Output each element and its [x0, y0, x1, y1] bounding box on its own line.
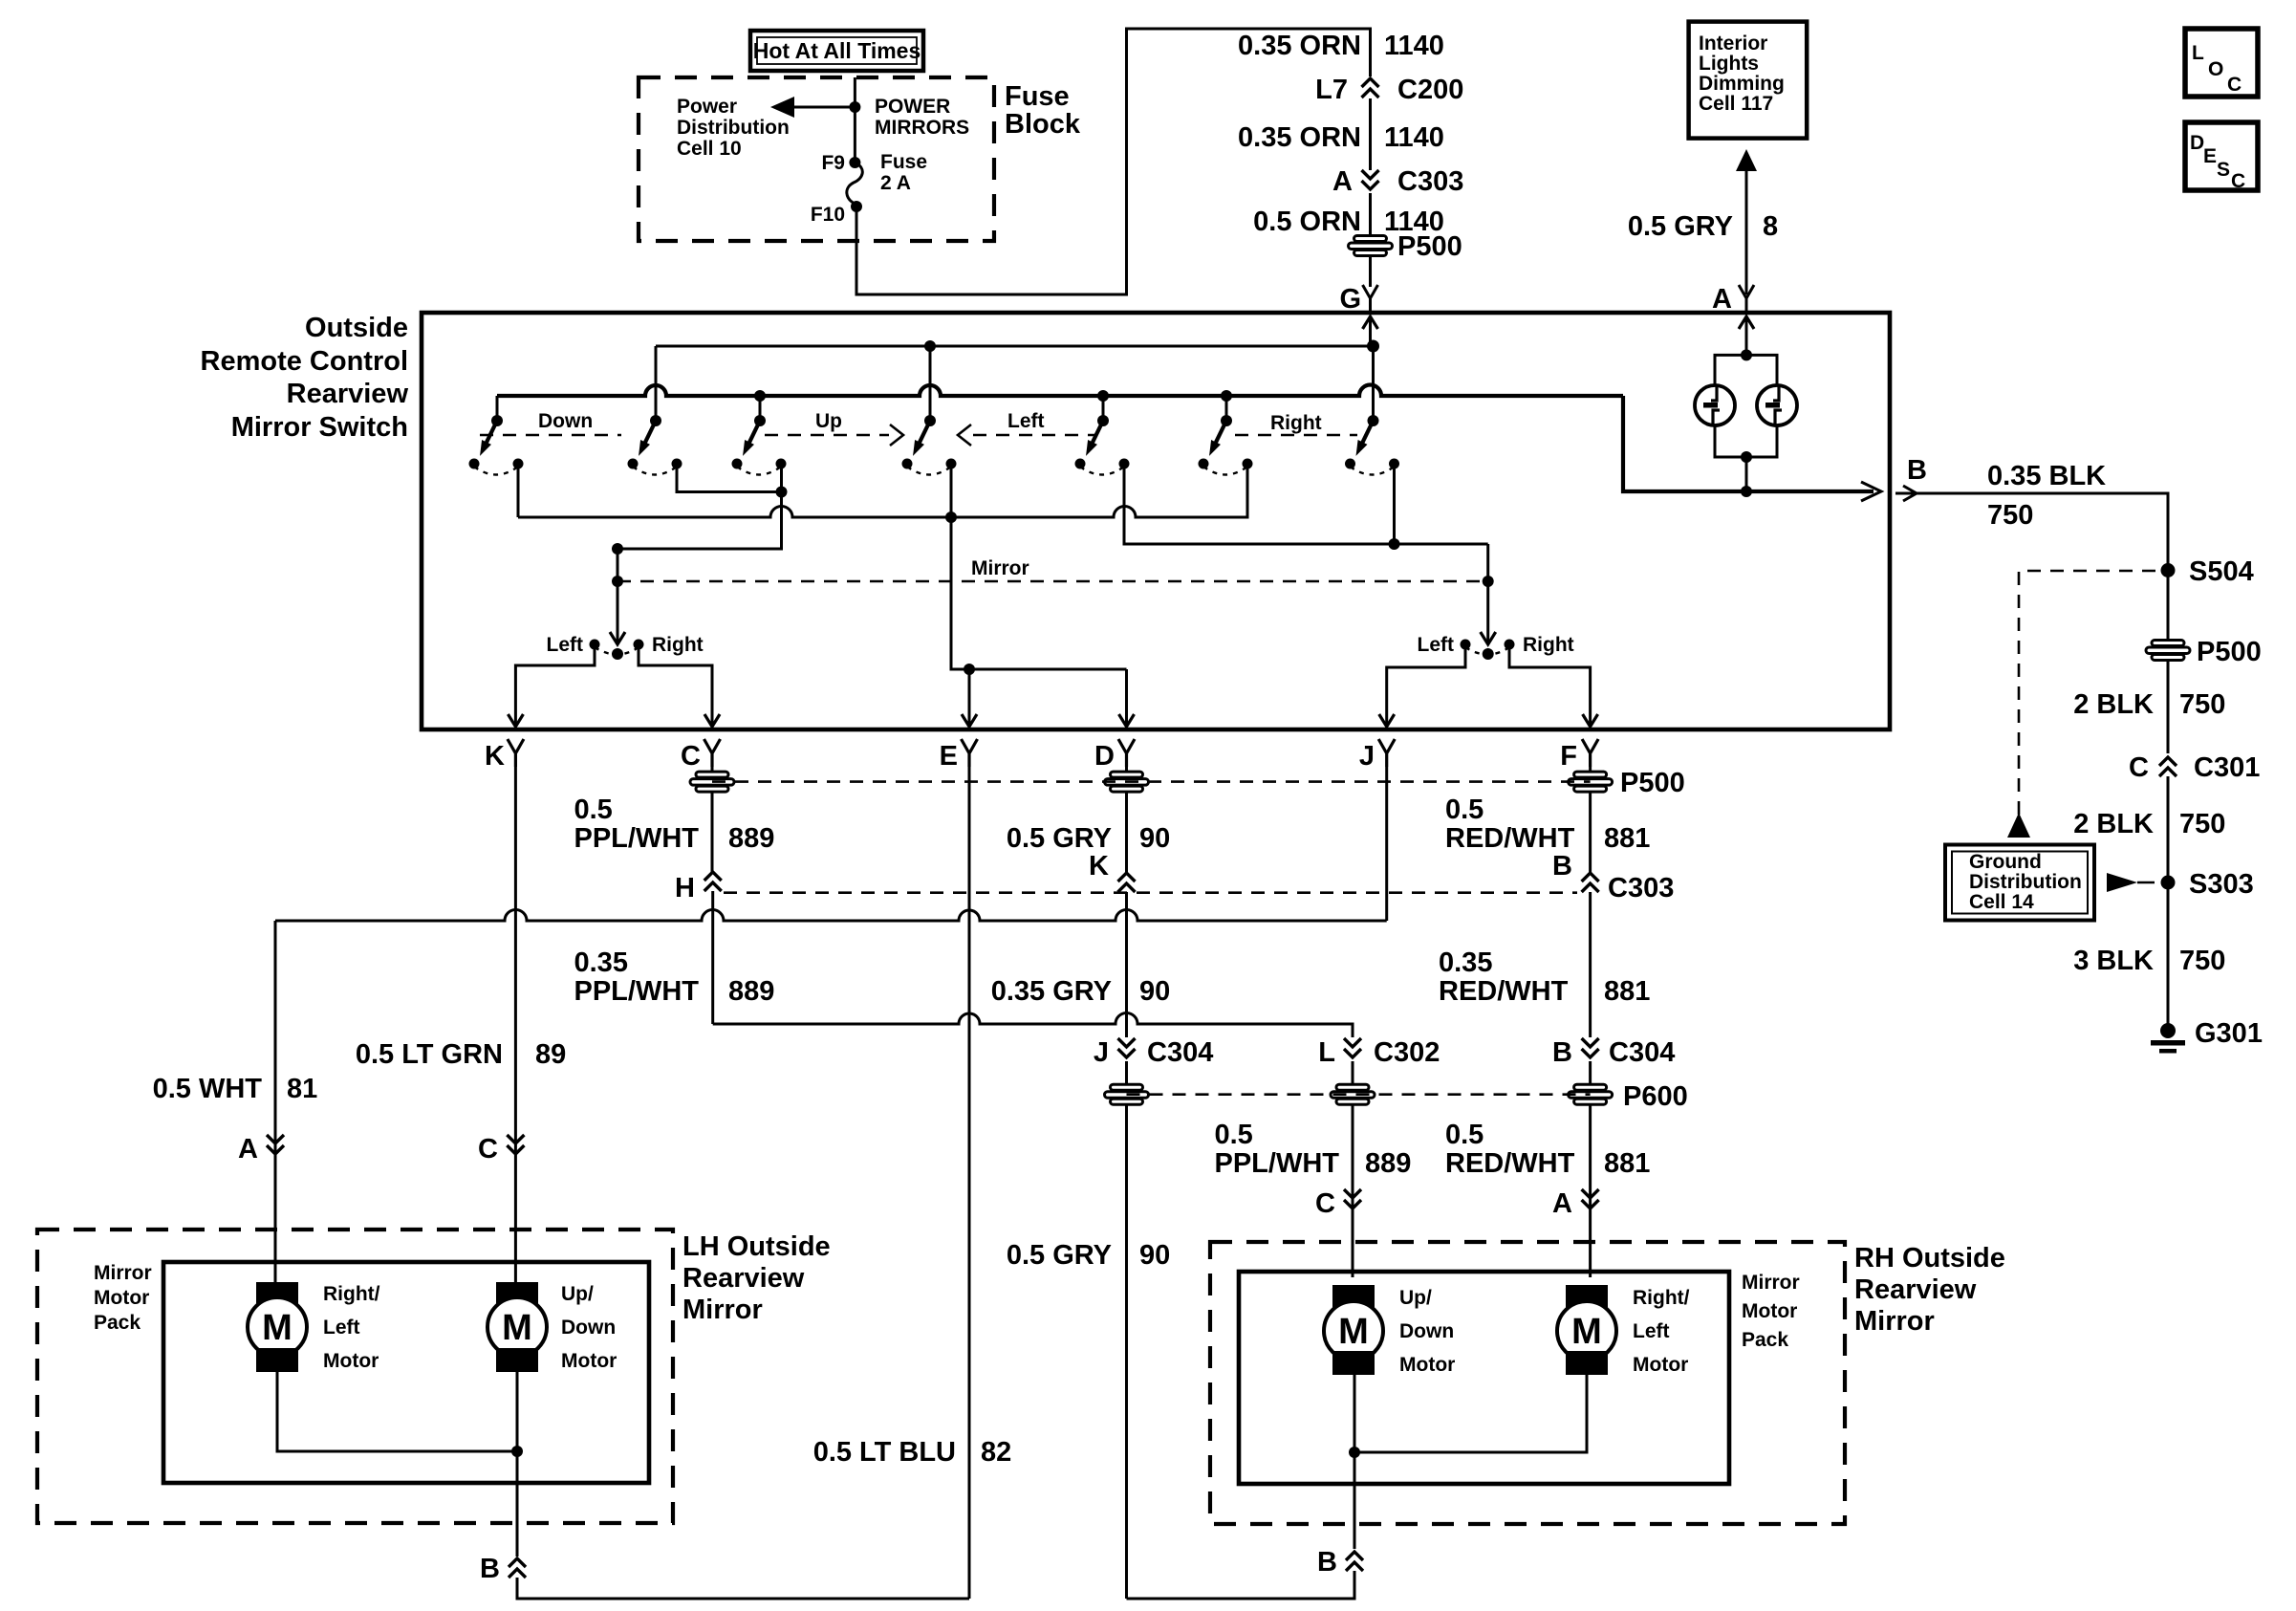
- label 0.5 WHT 81: [153, 1074, 318, 1104]
- svg-text:Motor: Motor: [561, 1350, 617, 1372]
- label 0.5 LT GRN 89: [356, 1039, 566, 1070]
- label Mirror Motor Pack (LH): [94, 1262, 152, 1334]
- connector G half chevron: [1363, 285, 1378, 313]
- svg-text:3 BLK: 3 BLK: [2073, 946, 2154, 976]
- wire SW5 right contact down to y569: [1124, 468, 1488, 544]
- node lamp bottom: [1741, 451, 1752, 463]
- wire LH U/D motor bottom through common to B: [516, 1372, 519, 1557]
- svg-text:PPL/WHT: PPL/WHT: [574, 976, 700, 1007]
- svg-text:Distribution: Distribution: [677, 117, 790, 139]
- line A (upper thin bus): [656, 345, 1374, 348]
- Hot At All Times box: [750, 31, 923, 71]
- svg-text:0.35: 0.35: [1439, 947, 1492, 978]
- svg-text:Motor: Motor: [1633, 1354, 1688, 1376]
- svg-text:B: B: [1907, 455, 1927, 486]
- svg-text:Left: Left: [1007, 410, 1045, 432]
- wire E drop with arrow: [962, 669, 977, 727]
- svg-text:Mirror: Mirror: [1742, 1272, 1800, 1294]
- label Mirror Motor Pack (RH): [1742, 1272, 1800, 1351]
- svg-text:0.35 ORN: 0.35 ORN: [1238, 31, 1361, 61]
- svg-text:0.5: 0.5: [574, 795, 613, 825]
- svg-text:0.35 ORN: 0.35 ORN: [1238, 122, 1361, 153]
- LOC box: [2185, 29, 2258, 97]
- label 0.35 ORN 1140: [1238, 122, 1444, 153]
- wire: 0.5 GRY 8 up to dimming: [1736, 149, 1757, 294]
- arrow C into box bottom: [704, 714, 720, 727]
- svg-text:PPL/WHT: PPL/WHT: [1215, 1148, 1340, 1179]
- svg-text:Rearview: Rearview: [1854, 1274, 1977, 1305]
- svg-text:B: B: [1552, 1037, 1572, 1068]
- splice S303: [2161, 876, 2176, 890]
- label RH Outside Rearview Mirror: [1854, 1243, 2005, 1337]
- DESC box: [2185, 122, 2258, 192]
- switch SW3 Up-left: [732, 415, 787, 475]
- svg-text:O: O: [2208, 58, 2223, 80]
- connector F pin: [1582, 739, 1598, 767]
- svg-text:889: 889: [1365, 1148, 1411, 1179]
- wire SW3 right contact down through junction to mirror select LH: [617, 468, 782, 549]
- svg-text:C304: C304: [1609, 1037, 1675, 1068]
- connector B chevron (LH): [509, 1558, 526, 1578]
- svg-text:0.35 BLK: 0.35 BLK: [1987, 461, 2106, 491]
- svg-text:A: A: [1552, 1188, 1572, 1219]
- label B / C304: [1552, 1037, 1675, 1068]
- svg-text:Up/: Up/: [561, 1283, 594, 1305]
- label C / C301: [2129, 752, 2260, 783]
- svg-text:Distribution: Distribution: [1969, 871, 2082, 893]
- wire RH mirror-select feed with arrow: [1481, 544, 1496, 644]
- node SW4 feed on line A: [924, 340, 936, 352]
- svg-text:Rearview: Rearview: [287, 379, 409, 409]
- connector K pin: [508, 739, 524, 767]
- wire LH B to E wire along bottom: [517, 1578, 969, 1599]
- svg-text:G301: G301: [2195, 1018, 2263, 1049]
- svg-text:C301: C301: [2194, 752, 2260, 783]
- wire SW5 stub: [1102, 396, 1105, 421]
- svg-text:C302: C302: [1374, 1037, 1440, 1068]
- svg-text:C303: C303: [1608, 873, 1674, 903]
- label 0.5 RED/WHT 881: [1445, 795, 1650, 854]
- label 0.35 PPL/WHT 889: [574, 947, 775, 1007]
- svg-text:RED/WHT: RED/WHT: [1445, 823, 1575, 854]
- lamp left: [1695, 385, 1735, 425]
- node E branch: [964, 664, 975, 675]
- label 2 BLK 750: [2073, 689, 2225, 720]
- connector A chevron into RH mirror: [1582, 1189, 1599, 1208]
- RH mirror motor pack box: [1239, 1272, 1729, 1484]
- switch SW1 Down-left: [469, 415, 524, 475]
- svg-text:P500: P500: [1397, 231, 1462, 262]
- svg-text:G: G: [1339, 284, 1361, 315]
- svg-text:C303: C303: [1397, 166, 1463, 197]
- wire 0.35 BLK 750 to S504: [1895, 493, 2168, 564]
- label Right/ Left Motor (LH): [323, 1283, 380, 1372]
- svg-text:90: 90: [1139, 823, 1170, 854]
- wire D drop with arrow: [1119, 669, 1135, 727]
- svg-text:Interior: Interior: [1699, 33, 1767, 54]
- LH motor Up/Down M2: [487, 1282, 547, 1372]
- label LH Outside Rearview Mirror: [682, 1231, 831, 1325]
- label B / C303: [1552, 851, 1674, 903]
- label 0.5 PPL/WHT 889 (lower): [1215, 1120, 1412, 1179]
- svg-text:881: 881: [1604, 1148, 1650, 1179]
- connector B chevron C304: [1582, 1038, 1599, 1057]
- dashed link Right: [1235, 434, 1357, 437]
- wire C/H continues down to PPL row 2: [711, 891, 714, 1024]
- node SW2/SW3 junction: [776, 487, 788, 498]
- svg-text:D: D: [1094, 741, 1115, 772]
- ground G301 symbol: [2151, 1023, 2185, 1054]
- label Power Distribution Cell 10: [677, 96, 790, 160]
- wire LH select right contact to C: [639, 648, 712, 717]
- svg-text:C: C: [681, 741, 701, 772]
- svg-text:Cell 117: Cell 117: [1699, 93, 1773, 115]
- svg-text:Mirror Switch: Mirror Switch: [231, 412, 408, 443]
- label Up/ Down Motor (RH): [1399, 1287, 1455, 1376]
- connector C301 chevron: [2159, 757, 2177, 776]
- svg-text:0.5 LT GRN: 0.5 LT GRN: [356, 1039, 503, 1070]
- svg-text:S504: S504: [2189, 556, 2254, 587]
- node RH common: [1349, 1447, 1360, 1458]
- wire C down to H and PPL row: [711, 767, 714, 772]
- connector P500 inline: [1349, 236, 1393, 256]
- svg-text:L: L: [1318, 1037, 1335, 1068]
- svg-text:J: J: [1094, 1037, 1109, 1068]
- svg-text:C304: C304: [1147, 1037, 1213, 1068]
- svg-text:Dimming: Dimming: [1699, 73, 1785, 95]
- wire: L branch from H row to C302: [713, 1013, 1353, 1038]
- svg-text:A: A: [1712, 284, 1732, 315]
- svg-text:0.5 GRY: 0.5 GRY: [1628, 211, 1733, 242]
- svg-text:L: L: [2192, 42, 2204, 64]
- svg-text:Mirror: Mirror: [1854, 1306, 1935, 1337]
- svg-text:Down: Down: [538, 410, 593, 432]
- svg-text:A: A: [1332, 166, 1353, 197]
- wire: hot feed into fuse: [854, 77, 856, 160]
- svg-text:S303: S303: [2189, 869, 2254, 900]
- switch SW7 Right-right: [1345, 415, 1399, 475]
- LH mirror dashed box: [37, 1230, 673, 1523]
- wire D down: GRY chain: [1125, 767, 1128, 772]
- wire SW3 stub: [759, 396, 762, 421]
- svg-text:0.35: 0.35: [574, 947, 628, 978]
- label 0.5 GRY 90: [1007, 823, 1170, 854]
- svg-text:89: 89: [535, 1039, 566, 1070]
- svg-text:H: H: [675, 873, 695, 903]
- wire LH select left contact to K: [515, 648, 595, 717]
- wire SW4 right contact drop: [950, 468, 953, 517]
- wire S303 to G301: [2167, 882, 2170, 1031]
- wire RH select right contact to F: [1509, 648, 1591, 717]
- wire SW2 right contact to junction: [677, 468, 782, 492]
- label POWER MIRRORS Fuse 2 A: [875, 96, 969, 194]
- lamp pair parallel rails: [1715, 355, 1777, 457]
- connector J pin: [1378, 739, 1395, 767]
- svg-text:Rearview: Rearview: [682, 1263, 805, 1294]
- svg-text:Right/: Right/: [323, 1283, 380, 1305]
- connector J chevron C304 on D wire: [1118, 1038, 1136, 1057]
- svg-text:Outside: Outside: [305, 313, 408, 343]
- wire RH R/L motor bottom to common: [1354, 1375, 1587, 1452]
- wire: below P500 to G: [1369, 256, 1372, 287]
- connector P500 on D wire: [1105, 772, 1149, 792]
- connector E pin: [962, 739, 978, 767]
- RH motor Up/Down M3: [1324, 1285, 1383, 1375]
- svg-text:MIRRORS: MIRRORS: [875, 117, 969, 139]
- svg-text:RED/WHT: RED/WHT: [1445, 1148, 1575, 1179]
- connector A half chevron above switch box: [1739, 285, 1754, 313]
- label 0.35 RED/WHT 881: [1439, 947, 1650, 1007]
- svg-text:Pack: Pack: [1742, 1329, 1788, 1351]
- svg-text:P600: P600: [1623, 1081, 1688, 1112]
- arrow J into box bottom: [1379, 714, 1395, 727]
- svg-text:881: 881: [1604, 976, 1650, 1007]
- label 0.35 GRY 90: [991, 976, 1171, 1007]
- svg-text:0.5 GRY: 0.5 GRY: [1007, 1240, 1112, 1271]
- connector P500 inline (ground): [2146, 641, 2190, 661]
- interior lights dimming cell 117 box: [1689, 22, 1808, 139]
- svg-text:F: F: [1560, 741, 1577, 772]
- LH motor Right/Left M1: [248, 1282, 307, 1372]
- svg-text:B: B: [1552, 851, 1572, 882]
- svg-text:P500: P500: [1620, 768, 1685, 798]
- svg-text:Hot At All Times: Hot At All Times: [753, 38, 921, 63]
- svg-text:0.5: 0.5: [1215, 1120, 1253, 1150]
- svg-text:750: 750: [2179, 689, 2225, 720]
- dashed branch from S504 to ground distribution: [2007, 571, 2155, 838]
- svg-text:0.5 ORN: 0.5 ORN: [1253, 207, 1361, 237]
- svg-text:2 BLK: 2 BLK: [2073, 689, 2154, 720]
- svg-text:Ground: Ground: [1969, 851, 2042, 873]
- connector L chevron C302: [1344, 1038, 1361, 1057]
- svg-text:Right: Right: [1270, 412, 1322, 434]
- wire: G feed down to line A: [1369, 316, 1372, 346]
- ground distribution cell 14 box: [1945, 845, 2094, 921]
- connector P500 on F wire: [1569, 772, 1613, 792]
- svg-text:D: D: [2190, 132, 2204, 154]
- label L / C302: [1318, 1037, 1440, 1068]
- label Up/ Down Motor (LH): [561, 1283, 617, 1372]
- svg-text:0.5 GRY: 0.5 GRY: [1007, 823, 1112, 854]
- svg-text:K: K: [1089, 851, 1109, 882]
- connector H chevron on C wire: [704, 872, 722, 891]
- label 0.5 RED/WHT 881 (lower): [1445, 1120, 1650, 1179]
- connector P600 on L wire: [1331, 1084, 1375, 1104]
- svg-text:Motor: Motor: [94, 1287, 149, 1309]
- svg-text:Lights: Lights: [1699, 53, 1759, 75]
- label Right/ Left Motor (RH): [1633, 1287, 1690, 1376]
- svg-text:90: 90: [1139, 1240, 1170, 1271]
- node on Mirror dashed line LH: [612, 576, 623, 587]
- wire row y541 to SW6 right contact (hops SW3 drop and SW5 drop): [518, 468, 1247, 517]
- connector P600 on B wire: [1569, 1084, 1613, 1104]
- svg-text:750: 750: [2179, 809, 2225, 839]
- wire B below P600 to RH mirror A: [1589, 1105, 1592, 1277]
- wire SW4-drop continues to E and D: [951, 517, 1127, 669]
- svg-text:C: C: [2129, 752, 2149, 783]
- svg-text:Pack: Pack: [94, 1312, 141, 1334]
- label 2 BLK 750 (lower): [2073, 809, 2225, 839]
- svg-text:C: C: [2227, 74, 2242, 96]
- label A / C303: [1332, 166, 1463, 197]
- connector C200 chevron: [1362, 78, 1379, 98]
- svg-text:2 BLK: 2 BLK: [2073, 809, 2154, 839]
- node SW3 on bus: [754, 390, 766, 402]
- node on Mirror dashed line RH: [1483, 576, 1494, 587]
- LH mirror motor pack box: [163, 1262, 649, 1483]
- svg-text:Cell 14: Cell 14: [1969, 891, 2034, 913]
- svg-text:Block: Block: [1005, 109, 1081, 140]
- dashed link Up with right arrow: [765, 425, 903, 446]
- wire D continues to C304: [1125, 892, 1128, 1037]
- svg-text:Mirror: Mirror: [94, 1262, 152, 1284]
- wire bus right end to B exit: [1623, 396, 1874, 491]
- svg-text:0.5 LT BLU: 0.5 LT BLU: [813, 1437, 956, 1468]
- connector P600 on D wire: [1105, 1084, 1149, 1104]
- wire: A feed down to lamp pair: [1745, 316, 1748, 355]
- svg-text:POWER: POWER: [875, 96, 950, 118]
- svg-text:Fuse: Fuse: [1005, 81, 1070, 112]
- wire A drop: [274, 921, 277, 1284]
- svg-text:Fuse: Fuse: [880, 151, 927, 173]
- svg-text:C: C: [2231, 170, 2245, 192]
- svg-text:F9: F9: [821, 152, 845, 174]
- svg-text:RH Outside: RH Outside: [1854, 1243, 2005, 1274]
- wire LH mirror-select feed with arrow: [610, 549, 625, 644]
- lamp right: [1757, 385, 1797, 425]
- wire RH B to D wire along bottom: [1127, 1571, 1355, 1599]
- svg-text:1140: 1140: [1384, 31, 1444, 61]
- svg-text:0.5 WHT: 0.5 WHT: [153, 1074, 263, 1104]
- svg-text:Right: Right: [1523, 634, 1574, 656]
- arrow F into box bottom: [1583, 714, 1598, 727]
- wire C301 to S303: [2167, 776, 2170, 882]
- svg-text:K: K: [485, 741, 505, 772]
- label 0.5 LT BLU 82: [813, 1437, 1012, 1468]
- wire SW7 right contact drop: [1393, 468, 1396, 544]
- label 0.5 PPL/WHT 889: [574, 795, 775, 854]
- wire bus left end down to SW1: [496, 396, 499, 421]
- svg-text:Motor: Motor: [1399, 1354, 1455, 1376]
- svg-text:J: J: [1359, 741, 1375, 772]
- svg-text:0.5: 0.5: [1445, 795, 1484, 825]
- svg-text:B: B: [480, 1554, 500, 1584]
- node corner left mirror feed: [612, 543, 623, 555]
- node on lamp feed: [1741, 349, 1752, 360]
- node on B line: [1741, 486, 1752, 497]
- wire: row 963 from A drop to J: [275, 910, 1387, 921]
- wire SW1 right contact down-right: [517, 468, 520, 517]
- svg-text:Left: Left: [1633, 1320, 1670, 1342]
- wire L to P600: [1352, 1061, 1354, 1084]
- wire line A left end down to SW2: [655, 346, 658, 421]
- svg-text:Mirror: Mirror: [971, 557, 1029, 579]
- switch SW2 Down-right: [628, 415, 682, 475]
- svg-text:M: M: [1571, 1312, 1602, 1352]
- svg-text:Right/: Right/: [1633, 1287, 1690, 1309]
- wire G down to SW7: [1372, 346, 1375, 421]
- svg-text:E: E: [2203, 145, 2217, 167]
- svg-text:2 A: 2 A: [880, 172, 911, 194]
- svg-text:90: 90: [1139, 976, 1170, 1007]
- wire RH select left contact to J: [1387, 648, 1465, 717]
- switch SW5 Left: [1075, 415, 1130, 475]
- svg-text:L7: L7: [1315, 75, 1348, 105]
- svg-text:Right: Right: [652, 634, 704, 656]
- svg-text:889: 889: [728, 976, 774, 1007]
- connector B chevron C303 on F wire: [1582, 873, 1599, 892]
- node SW7 drop: [1389, 538, 1400, 550]
- node SW5 on bus: [1097, 390, 1109, 402]
- svg-text:1140: 1140: [1384, 122, 1444, 153]
- node SW6 on bus: [1221, 390, 1232, 402]
- switch box outline: [422, 313, 1890, 729]
- svg-text:PPL/WHT: PPL/WHT: [574, 823, 700, 854]
- svg-text:C: C: [478, 1134, 498, 1165]
- svg-text:Motor: Motor: [1742, 1300, 1797, 1322]
- wire LH R/L motor bottom to common: [277, 1372, 517, 1451]
- wire B to P600: [1589, 1061, 1592, 1084]
- wire D to P600: [1125, 1061, 1128, 1084]
- label L7 / C200: [1315, 75, 1463, 105]
- wire: fuse output to orange feed: [856, 29, 1371, 294]
- svg-text:E: E: [940, 741, 958, 772]
- arrow K into box bottom: [508, 714, 523, 727]
- connector P500 on C wire: [690, 772, 734, 792]
- wire L below P600 to RH mirror C: [1352, 1105, 1354, 1277]
- wire: orange 0.5 to P500: [1369, 193, 1372, 235]
- svg-text:Down: Down: [561, 1317, 616, 1339]
- connector A chevron on A wire: [267, 1135, 284, 1154]
- dashed link Left with left arrow: [958, 425, 1097, 446]
- connector C chevron on K wire: [507, 1135, 524, 1154]
- dashed link Down: [480, 434, 621, 437]
- svg-text:P500: P500: [2197, 637, 2262, 667]
- RH select switch pivot and contacts: [1461, 640, 1515, 661]
- switch SW6 Right-left: [1199, 415, 1253, 475]
- node SW4 drop on y541: [945, 512, 957, 523]
- node LH common: [511, 1446, 523, 1457]
- svg-text:Left: Left: [323, 1317, 360, 1339]
- svg-text:A: A: [238, 1134, 258, 1165]
- svg-text:C: C: [1315, 1188, 1335, 1219]
- label Outside Remote Control Rearview Mirror Switch: [201, 313, 409, 443]
- svg-text:S: S: [2217, 159, 2230, 181]
- svg-text:F10: F10: [811, 204, 845, 226]
- connector K chevron C303 on D wire: [1118, 873, 1136, 892]
- label 0.5 GRY 90 (lower): [1007, 1240, 1170, 1271]
- fuse block dashed box: [639, 77, 994, 241]
- label Fuse Block: [1005, 81, 1081, 140]
- svg-text:M: M: [1338, 1312, 1369, 1352]
- wire line A node down to SW4: [929, 346, 932, 421]
- dashed P500 harness line: [712, 780, 1591, 783]
- connector D pin: [1118, 739, 1135, 767]
- svg-text:Mirror: Mirror: [682, 1295, 763, 1325]
- svg-text:Power: Power: [677, 96, 737, 118]
- arrow entering at A: [1739, 316, 1754, 329]
- wire B continues down: [1589, 892, 1592, 1037]
- svg-text:B: B: [1317, 1547, 1337, 1578]
- svg-text:0.5: 0.5: [1445, 1120, 1484, 1150]
- svg-text:750: 750: [1987, 500, 2033, 531]
- label 0.5 ORN 1140: [1253, 207, 1444, 237]
- svg-text:Remote Control: Remote Control: [201, 346, 409, 377]
- wire RH U/D motor bottom through common to B: [1354, 1375, 1356, 1549]
- wire P500 to C301: [2167, 661, 2170, 753]
- connector B chevron (RH): [1346, 1552, 1363, 1571]
- LH select switch pivot and contacts: [590, 640, 644, 661]
